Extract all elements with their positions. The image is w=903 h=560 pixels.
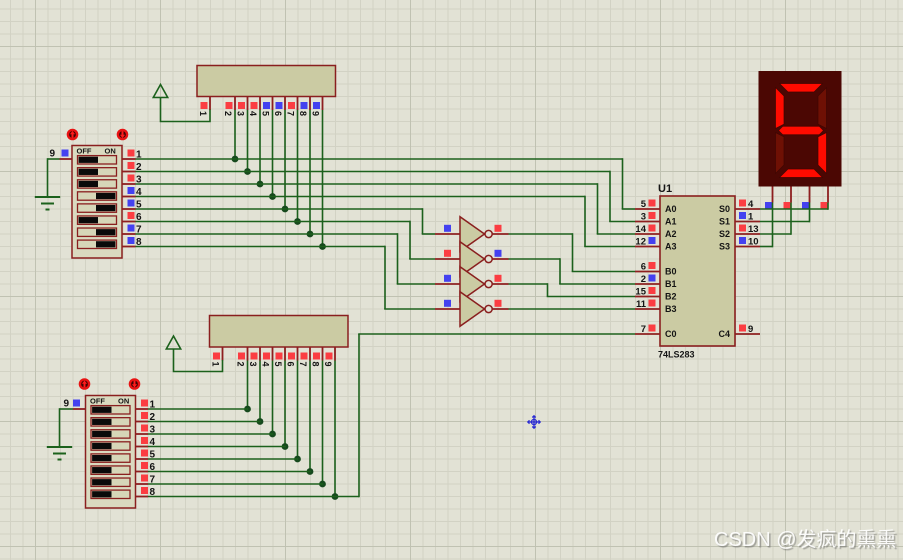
svg-text:1: 1 [748, 212, 754, 223]
DSW1 switch element 7 [78, 228, 117, 236]
wire respack RN1 pin 9 to net A8 row [322, 110, 324, 247]
svg-text:A3: A3 [665, 242, 677, 252]
DIP switch DSW1 (top, operand A) [72, 146, 122, 259]
svg-text:5: 5 [261, 111, 271, 116]
wire DSW2 pin 2 row [148, 421, 261, 423]
svg-text:B1: B1 [665, 279, 677, 289]
wire vertical down to inverter U4 input [397, 233, 399, 284]
wire respack RN1 pin 7 to net A6 row [297, 110, 299, 222]
DSW1 pin 5 [122, 208, 136, 210]
svg-text:ON: ON [105, 147, 116, 156]
DSW1 pin 1 [122, 158, 136, 160]
DSW2 switch element 2 [91, 418, 130, 426]
wire into inverter U3 input [409, 258, 435, 260]
DSW2 switch element 5 [91, 454, 130, 462]
svg-text:ON: ON [118, 397, 129, 406]
wire inverter 4 output to U1 B3 [509, 308, 636, 310]
U1 pin 14 (A2) [635, 233, 660, 235]
wire vertical down to U1 A2 [597, 183, 599, 234]
wire into inverter U4 input [397, 283, 435, 285]
wire net B bit 2 : DSW1 pin 7 to jog [136, 233, 398, 235]
respack RN1 pin 2 [234, 97, 236, 111]
U1 pin 9 (C4) [735, 333, 760, 335]
junction node row 3 [257, 181, 264, 188]
wire into inverter U5 input [384, 308, 435, 310]
svg-text:5: 5 [641, 199, 647, 210]
wire respack RN2 pin 2 down to DSW2 row 1 [247, 361, 249, 410]
U1 pin 12 (A3) [635, 246, 660, 248]
U1 pin 11 (B3) [635, 308, 660, 310]
respack RN1 pin 3 [247, 97, 249, 111]
svg-text:3: 3 [236, 111, 246, 116]
DSW1 switch element 1 [78, 156, 117, 164]
junction node row 8 [319, 243, 326, 250]
wire power terminal to RN2 pin 1 [174, 349, 223, 372]
svg-text:A0: A0 [665, 204, 677, 214]
wire net A bit 0 : DSW1 pin 1 to column [136, 158, 623, 160]
wire respack RN2 pin 6 down to DSW2 row 5 [297, 361, 299, 460]
respack RN2 pin 4 [272, 347, 274, 361]
svg-text:14: 14 [635, 224, 646, 235]
svg-text:10: 10 [748, 237, 759, 248]
DSW1 actuator button down [118, 130, 127, 139]
svg-text:1: 1 [198, 111, 208, 116]
DSW1 pin 4 [122, 196, 136, 198]
svg-text:A2: A2 [665, 229, 677, 239]
resistor pack RN2 (bottom pull-up respack) [210, 316, 349, 348]
inverter NOT gate 4 [435, 308, 460, 310]
svg-text:12: 12 [635, 237, 646, 248]
display segment f (on) [776, 88, 785, 129]
wire vertical down to U1 A3 [584, 196, 586, 247]
U1 pin 15 (B2) [635, 296, 660, 298]
wire DSW2 pin 9 to ground [60, 408, 74, 410]
DSW2 pin 1 [136, 408, 149, 410]
wire respack RN2 pin 7 down to DSW2 row 6 [309, 361, 311, 472]
display segment d (on) [780, 169, 823, 178]
respack RN1 pin 1 [209, 97, 211, 111]
svg-text:9: 9 [50, 149, 56, 160]
DIP switch DSW2 (bottom, operand B) [86, 396, 136, 509]
svg-text:8: 8 [298, 111, 308, 116]
junction node row 1 [232, 156, 239, 163]
U1 pin 10 (S3) [735, 246, 760, 248]
DSW2 pin 4 [136, 446, 149, 448]
wire U1 S0 to display pin 4 [760, 208, 828, 210]
ground symbol (top) [35, 196, 60, 198]
DSW1 pin 6 [122, 221, 136, 223]
junction node row 5 [282, 206, 289, 213]
wire respack RN1 pin 6 to net A5 row [284, 110, 286, 209]
wire into U1 A3 pin [584, 246, 635, 248]
respack RN2 pin 6 [297, 347, 299, 361]
wire vertical down to inverter U5 input [384, 246, 386, 309]
svg-text:OFF: OFF [90, 397, 105, 406]
svg-text:3: 3 [248, 362, 258, 367]
wire vertical down to U1 A1 [609, 171, 611, 222]
respack RN2 pin 9 [334, 347, 336, 361]
resistor pack RN1 (top pull-up respack) [197, 66, 336, 97]
wire U1 S1 to display pin 3 [760, 221, 810, 223]
display pin 3 [809, 187, 811, 203]
DSW2 switch element 3 [91, 430, 130, 438]
wire respack RN2 pin 8 down to DSW2 row 7 [322, 361, 324, 485]
DSW2 switch element 4 [91, 442, 130, 450]
junction node bottom row 2 [257, 418, 264, 425]
wire respack RN1 pin 5 to net A4 row [272, 110, 274, 197]
svg-text:S1: S1 [719, 217, 730, 227]
U1 pin 4 (S0) [735, 208, 760, 210]
DSW2 switch element 1 [91, 406, 130, 414]
display segment g (on) [779, 126, 824, 135]
wire DSW2 pin 4 row [148, 446, 286, 448]
wire respack RN2 pin 5 down to DSW2 row 4 [284, 361, 286, 447]
respack RN1 pin 5 [272, 97, 274, 111]
svg-text:9: 9 [748, 324, 753, 335]
DSW1 switch element 6 [78, 216, 117, 224]
junction node bottom row 6 [307, 468, 314, 475]
svg-text:2: 2 [641, 274, 646, 285]
DSW2 pin 5 [136, 458, 149, 460]
DSW1 switch element 2 [78, 168, 117, 176]
wire net A bit 1 : DSW1 pin 2 to column [136, 171, 611, 173]
svg-text:A1: A1 [665, 217, 677, 227]
svg-text:3: 3 [641, 212, 646, 223]
wire inverter 3 output to U1 B2 [509, 283, 548, 285]
wire U1 S2 to display pin 2 [760, 233, 791, 235]
DSW1 pin 7 [122, 233, 136, 235]
wire into U1 A0 pin [622, 208, 635, 210]
svg-text:6: 6 [286, 362, 296, 367]
svg-text:74LS283: 74LS283 [658, 350, 695, 360]
svg-text:U1: U1 [658, 183, 672, 195]
svg-text:9: 9 [323, 362, 333, 367]
svg-text:7: 7 [641, 324, 646, 335]
junction node bottom row 3 [269, 431, 276, 438]
IC U1 74LS283 4-bit adder body [660, 196, 735, 346]
svg-text:6: 6 [641, 262, 646, 273]
svg-text:S0: S0 [719, 204, 730, 214]
inverter NOT gate 3 [435, 283, 460, 285]
svg-text:S3: S3 [719, 242, 730, 252]
svg-text:S2: S2 [719, 229, 730, 239]
svg-text:11: 11 [636, 299, 647, 310]
wire respack RN1 pin 8 to net A7 row [309, 110, 311, 234]
svg-text:9: 9 [64, 399, 70, 410]
DSW2 pin 7 [136, 483, 149, 485]
DSW1 pin 2 [122, 171, 136, 173]
svg-text:C4: C4 [718, 329, 730, 339]
svg-text:B2: B2 [665, 292, 677, 302]
wire respack RN2 pin 3 down to DSW2 row 2 [259, 361, 261, 422]
wire respack RN1 pin 3 to net A2 row [247, 110, 249, 172]
svg-text:OFF: OFF [77, 147, 92, 156]
wire vertical down to inverter U2 input [422, 208, 424, 234]
junction node row 2 [244, 168, 251, 175]
DSW2 pin 8 [136, 496, 149, 498]
inverter NOT gate 1 [435, 233, 460, 235]
wire into inverter U2 input [422, 233, 435, 235]
DSW2 pin 3 [136, 433, 149, 435]
wire U1 S3 to display pin 1 [760, 246, 773, 248]
respack RN1 pin 8 [309, 97, 311, 111]
svg-text:6: 6 [273, 111, 283, 116]
DSW1 actuator button up [68, 130, 77, 139]
DSW1 pin 3 [122, 183, 136, 185]
DSW1 switch element 5 [78, 204, 117, 212]
svg-text:4: 4 [748, 199, 754, 210]
display pin 1 [772, 187, 774, 203]
wire respack RN1 pin 2 to net A1 row [234, 110, 236, 159]
wire respack RN2 pin 4 down to DSW2 row 3 [272, 361, 274, 435]
DSW1 pin 9 (common) [60, 158, 73, 160]
svg-text:9: 9 [311, 111, 321, 116]
DSW2 pin 6 [136, 471, 149, 473]
svg-text:C0: C0 [665, 329, 677, 339]
wire DSW2 pin 7 row [148, 483, 323, 485]
DSW2 actuator button down [130, 379, 139, 388]
respack RN2 pin 1 [222, 347, 224, 361]
wire inverter 2 output to U1 B1 [509, 258, 561, 260]
U1 pin 1 (S1) [735, 221, 760, 223]
svg-text:5: 5 [273, 362, 283, 367]
DSW1 switch element 8 [78, 240, 117, 248]
ground symbol (bottom) [47, 446, 72, 448]
svg-text:2: 2 [236, 362, 246, 367]
wire net C0 : DSW2 row 8 up to U1 C0 [358, 334, 360, 497]
respack RN2 pin 8 [322, 347, 324, 361]
junction node bottom row 8 [332, 493, 339, 500]
U1 pin 6 (B0) [635, 271, 660, 273]
wire DSW2 pin 1 row [148, 408, 248, 410]
DSW1 pin 8 [122, 246, 136, 248]
display pin 2 [790, 187, 792, 203]
wire net B bit 0 : DSW1 pin 5 to jog [136, 208, 423, 210]
junction node bottom row 7 [319, 481, 326, 488]
respack RN1 pin 4 [259, 97, 261, 111]
respack RN2 pin 5 [284, 347, 286, 361]
wire into U1 A1 pin [609, 221, 635, 223]
wire net B bit 3 : DSW1 pin 8 to jog [136, 246, 386, 248]
junction node bottom row 5 [294, 456, 301, 463]
wire DSW2 pin 5 row [148, 458, 298, 460]
svg-text:CSDN @发疯的熏熏: CSDN @发疯的熏熏 [714, 528, 897, 551]
display segment e (off) [776, 133, 785, 174]
display segment c (on) [818, 133, 827, 174]
display segment b (off) [818, 88, 827, 129]
DSW2 pin 9 (common) [73, 408, 86, 410]
svg-text:B3: B3 [665, 304, 677, 314]
wire vertical down to U1 A0 [622, 158, 624, 209]
junction node row 4 [269, 193, 276, 200]
U1 pin 2 (B1) [635, 283, 660, 285]
wire net B bit 1 : DSW1 pin 6 to jog [136, 221, 411, 223]
junction node row 6 [294, 218, 301, 225]
junction node row 7 [307, 231, 314, 238]
U1 pin 5 (A0) [635, 208, 660, 210]
svg-text:15: 15 [635, 287, 646, 298]
wire DSW2 pin 8 row [148, 496, 359, 498]
wire power terminal to RN1 pin 1 [161, 98, 211, 122]
power terminal (top, feeds RN1 pin 1) [153, 85, 167, 98]
DSW2 switch element 7 [91, 478, 130, 486]
respack RN1 pin 6 [284, 97, 286, 111]
wire respack RN2 pin 9 down to DSW2 row 8 [334, 361, 336, 497]
DSW2 switch element 8 [91, 490, 130, 498]
inverter NOT gate 2 [435, 258, 460, 260]
wire inverter 1 output to U1 B0 [509, 233, 573, 235]
svg-text:4: 4 [248, 111, 258, 116]
display pin 4 [827, 187, 829, 203]
DSW2 pin 2 [136, 421, 149, 423]
origin marker (blue crosshair) [528, 416, 540, 428]
wire DSW2 pin 3 row [148, 433, 273, 435]
svg-text:8: 8 [311, 362, 321, 367]
svg-text:7: 7 [286, 111, 296, 116]
U1 pin 13 (S2) [735, 233, 760, 235]
respack RN1 pin 9 [322, 97, 324, 111]
wire DSW1 pin 9 to ground [48, 158, 60, 160]
svg-text:B0: B0 [665, 267, 677, 277]
svg-text:7: 7 [298, 362, 308, 367]
DSW2 actuator button up [80, 379, 89, 388]
wire net A bit 2 : DSW1 pin 3 to column [136, 183, 598, 185]
U1 pin 3 (A1) [635, 221, 660, 223]
DSW1 switch element 4 [78, 192, 117, 200]
power terminal (bottom, feeds RN2 pin 1) [166, 336, 180, 349]
respack RN2 pin 7 [309, 347, 311, 361]
U1 pin 7 (C0) [635, 333, 660, 335]
wire DSW2 pin 6 row [148, 471, 311, 473]
junction node bottom row 1 [244, 406, 251, 413]
display segment a (on) [780, 84, 823, 93]
svg-text:2: 2 [223, 111, 233, 116]
wire into U1 A2 pin [597, 233, 635, 235]
wire net A bit 3 : DSW1 pin 4 to column [136, 196, 586, 198]
respack RN2 pin 2 [247, 347, 249, 361]
7-segment display (BCD), showing digit 5 [759, 71, 842, 187]
wire vertical down to inverter U3 input [409, 221, 411, 259]
DSW1 switch element 3 [78, 180, 117, 188]
wire respack RN1 pin 4 to net A3 row [259, 110, 261, 184]
svg-text:13: 13 [748, 224, 759, 235]
svg-text:1: 1 [211, 362, 221, 367]
junction node bottom row 4 [282, 443, 289, 450]
svg-text:4: 4 [261, 362, 271, 367]
respack RN2 pin 3 [259, 347, 261, 361]
DSW2 switch element 6 [91, 466, 130, 474]
respack RN1 pin 7 [297, 97, 299, 111]
